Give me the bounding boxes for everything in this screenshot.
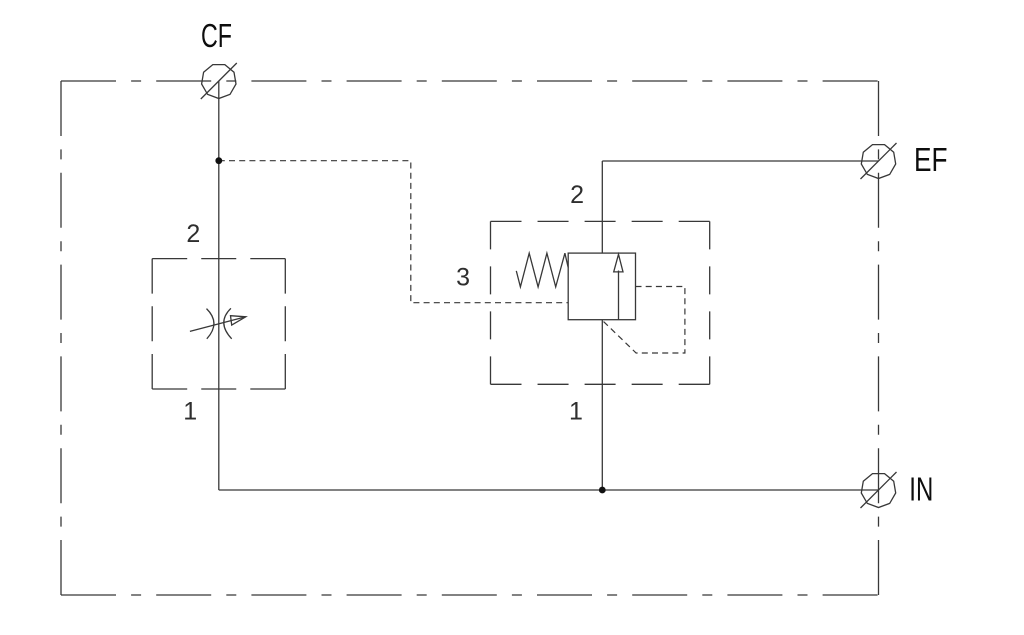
- svg-text:CF: CF: [201, 17, 232, 54]
- svg-text:EF: EF: [914, 141, 948, 178]
- svg-text:3: 3: [456, 264, 470, 292]
- svg-text:2: 2: [570, 181, 584, 209]
- svg-text:IN: IN: [909, 470, 933, 507]
- svg-text:2: 2: [186, 220, 200, 248]
- svg-text:1: 1: [569, 397, 583, 425]
- svg-text:1: 1: [183, 398, 197, 426]
